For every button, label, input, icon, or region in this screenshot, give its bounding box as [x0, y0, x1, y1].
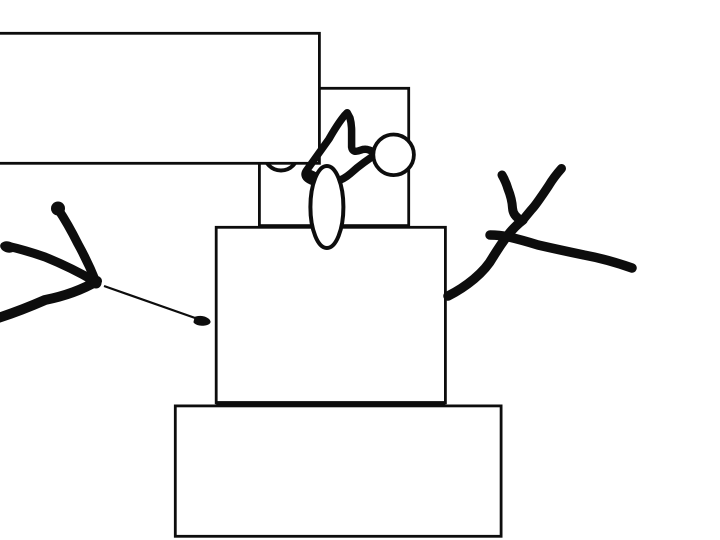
middle rectangle [216, 227, 445, 402]
right arm horizontal branch [490, 235, 632, 268]
squiggle star/bird scribble [305, 113, 374, 183]
bottom rectangle [175, 406, 501, 536]
right arm trunk [448, 220, 523, 296]
left arm junction blob [91, 278, 102, 289]
white ellipse (nose/body oval) [310, 166, 343, 248]
left arm upper finger bud [51, 202, 65, 216]
small circle (behind big rectangle) [264, 137, 298, 171]
middle rectangle thick bottom edge [216, 401, 445, 405]
right arm left finger [502, 175, 521, 220]
left arm upper finger [58, 209, 96, 282]
left arm left finger bud [0, 240, 17, 255]
left arm trunk [0, 281, 97, 319]
big top-left rectangle [0, 33, 319, 163]
thin twig line [104, 286, 198, 319]
head rectangle [259, 88, 408, 225]
right arm right finger [523, 169, 562, 221]
twig end blob [195, 317, 209, 324]
right head circle [373, 135, 414, 176]
left arm left finger [7, 246, 94, 281]
